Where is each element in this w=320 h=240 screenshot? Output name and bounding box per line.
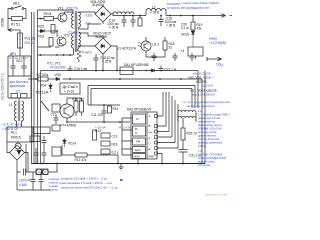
choke Dr box [60, 83, 80, 94]
svg-text:С11 100: С11 100 [91, 113, 103, 117]
lamp HL1 circle [15, 143, 21, 149]
svg-text:FM: FM [136, 140, 141, 144]
svg-text:× 630 В С6: × 630 В С6 [2, 127, 18, 131]
svg-text:VD4: VD4 [40, 84, 46, 88]
diode VD5 [56, 77, 60, 80]
svg-text:КТ817Б: КТ817Б [67, 7, 78, 11]
phototransistor U1.2 [141, 41, 151, 51]
opto arrows [138, 42, 142, 47]
svg-text:Hi/St: Hi/St [134, 155, 140, 159]
L3 illustration winding row2 [178, 116, 196, 118]
capacitor C15 on railA [68, 66, 73, 71]
svg-text:~9 В: ~9 В [84, 22, 91, 26]
bridge3 VD12-VD15 diamond [95, 38, 111, 54]
diode after DA1 [148, 69, 158, 72]
transformer T1 core [75, 11, 77, 52]
svg-text:0,1 м: 0,1 м [181, 26, 189, 30]
capacitor C1b [22, 56, 27, 76]
resistor R9 vertical [93, 130, 97, 140]
svg-text:R12 47к: R12 47к [75, 158, 87, 162]
small box DM [52, 147, 61, 156]
resistor R7 [38, 77, 48, 81]
svg-text:С21 1 м: С21 1 м [165, 68, 177, 72]
rail y105 [88, 104, 120, 106]
svg-text:КС212Ж: КС212Ж [36, 91, 48, 95]
feedback cap [42, 136, 47, 148]
svg-text:FU1 2А: FU1 2А [25, 37, 37, 41]
svg-text:намотаний на: намотаний на [198, 120, 216, 124]
rail B y78-79 [28, 78, 202, 80]
small comp column r16 [101, 149, 110, 154]
svg-text:× 35 В: × 35 В [166, 24, 175, 28]
wire out cap row [17, 169, 36, 176]
svg-text:× 25 В: × 25 В [102, 60, 111, 64]
switch KB1 lever [13, 6, 22, 9]
DA2 subbox RtCt [133, 126, 146, 136]
svg-text:C: C [149, 136, 151, 140]
switch KB1 terminals [11, 8, 13, 10]
small rect comp2 bottom box2 [21, 94, 28, 99]
resistor R19 [191, 22, 195, 30]
svg-text:СЕТЬ 220 В 50 Гц: СЕТЬ 220 В 50 Гц [0, 73, 4, 100]
svg-text:VD3: VD3 [38, 35, 44, 39]
bridge3 output wire [111, 46, 117, 71]
junction dots mid [66, 104, 121, 123]
svg-text:С2: С2 [16, 90, 20, 94]
svg-text:5 мкГн: 5 мкГн [82, 51, 92, 55]
bottom common rail [32, 163, 206, 165]
svg-text:VD2: VD2 [38, 25, 44, 29]
rail A y70.5 [41, 70, 199, 72]
main +U rail top [111, 14, 226, 16]
capacitor C21 [159, 66, 164, 71]
arrow +U output [222, 14, 226, 17]
vertical cap leg1 [31, 172, 36, 190]
choke L1 core [18, 101, 20, 121]
svg-text:R1 5,1: R1 5,1 [11, 23, 21, 27]
T1 primary winding lower [72, 33, 74, 48]
vertical bus right of IC [163, 92, 178, 148]
small comp column r13 [101, 141, 110, 146]
bridge VD8-VD11 diode mark [101, 12, 105, 16]
svg-text:R11 4,7к: R11 4,7к [119, 126, 131, 130]
svg-text:1-й: 1-й [198, 109, 202, 113]
wire T1 sec mid to bridge3 top [79, 33, 104, 38]
cap C10 [54, 115, 59, 124]
rail D y88.5 [91, 89, 192, 109]
decoupling cap2 [173, 53, 178, 61]
thermistor zigzag [77, 48, 81, 60]
svg-text:+12,5 В(9В): +12,5 В(9В) [209, 41, 226, 45]
decoupling cap row y57 [146, 53, 165, 61]
svg-text:× 30 В: × 30 В [109, 26, 118, 30]
svg-text:IV: IV [136, 117, 139, 121]
diode VD19 [191, 30, 195, 47]
svg-text:DA2 КР1033ЕУ5: DA2 КР1033ЕУ5 [127, 108, 151, 112]
decoupling cap3 [190, 53, 195, 61]
zener VD4 [49, 83, 53, 92]
svg-text:НОМІНАЛИ ДЕТАЛЕЙ: НОМІНАЛИ ДЕТАЛЕЙ [198, 156, 226, 160]
wires VT4 area [67, 98, 82, 122]
svg-text:С15 1 мк: С15 1 мк [74, 67, 88, 71]
choke L2 section1 bumps [113, 12, 134, 14]
svg-text:кольором: кольором [198, 164, 210, 167]
junction dots primary [40, 18, 71, 56]
resistor R26 [181, 128, 185, 140]
wire to T1 primary [72, 10, 74, 14]
svg-text:феритовому кільці: феритовому кільці [198, 123, 222, 127]
svg-text:U: U [149, 142, 151, 146]
resistor R11 vertical [80, 101, 84, 112]
wire U1.2 top [145, 37, 147, 57]
wire to fuse [17, 30, 20, 33]
svg-text:A: A [149, 114, 151, 118]
svg-text:VT4 КТ808: VT4 КТ808 [60, 124, 76, 128]
black text block right [188, 76, 217, 93]
svg-text:≈ 15 мА: ≈ 15 мА [95, 126, 106, 130]
capacitor C11 [102, 105, 107, 122]
svg-text:діаметром 0,5 мм,: діаметром 0,5 мм, [198, 116, 221, 120]
DA2 pin squares [155, 115, 158, 156]
wire rail y55 [38, 54, 74, 56]
DA2 subbox Start [133, 147, 146, 153]
svg-text:0,1 мк К73-17: 0,1 мк К73-17 [10, 56, 29, 60]
resistor R10 vertical [74, 101, 78, 112]
svg-text:B: B [149, 124, 151, 128]
svg-text:43к: 43к [197, 27, 203, 31]
svg-text:2200пФ: 2200пФ [19, 179, 31, 183]
transistor VT1 [58, 13, 67, 22]
svg-text:містить 15 витків: містить 15 витків [198, 137, 220, 141]
wire T1 sec mid to bridge1 bottom [79, 22, 104, 29]
wire DA2 bottom to rail [137, 159, 139, 164]
capacitor C18 [94, 54, 99, 71]
filter box C1 wires [8, 56, 31, 76]
optocoupler U1.1 circles [36, 169, 42, 175]
svg-text:VD5: VD5 [55, 73, 61, 77]
svg-text:Др 47мкГн: Др 47мкГн [63, 85, 78, 89]
diag stroke [41, 101, 49, 111]
wire y145 bottom mid [61, 145, 63, 155]
svg-text:КВ 1: КВ 1 [13, 2, 20, 6]
svg-text:VD7, VD18 КД522Б: VD7, VD18 КД522Б [190, 89, 217, 93]
svg-text:КТ3102БМ: КТ3102БМ [50, 66, 66, 70]
aux box right [188, 47, 203, 56]
svg-text:radioscheme.net: radioscheme.net [205, 193, 227, 197]
choke L2 section2 raised [146, 11, 166, 16]
electrolytic cap1 bottom left [34, 148, 39, 164]
capacitor C16 [122, 16, 127, 28]
L3 illustration legs [178, 112, 196, 128]
svg-text:ТА ІНШІ УТОЧНЕНІ: ТА ІНШІ УТОЧНЕНІ [198, 153, 222, 157]
svg-text:U1 АОТ127А: U1 АОТ127А [117, 47, 137, 51]
wire comp to right [48, 164, 57, 173]
svg-text:VD14: VD14 [68, 142, 76, 146]
svg-text:вказані синім: вказані синім [198, 160, 215, 164]
wire bridge bottom long [16, 160, 18, 190]
svg-text:КД226Б,: КД226Б, [196, 80, 208, 84]
svg-text:R13: R13 [95, 129, 101, 133]
choke L1 left winding [15, 101, 17, 121]
wire choke to HL1 [17, 121, 22, 127]
svg-text:+ 2×10: + 2×10 [64, 90, 74, 94]
feedback small box3 [52, 125, 60, 131]
small comp R14 [108, 106, 112, 113]
svg-text:частотные дроссели: частотные дроссели [186, 104, 215, 108]
bridge VD8-VD11 diamond [95, 6, 111, 22]
common rail arrow [207, 57, 222, 61]
wire mid y47 [38, 46, 60, 48]
svg-text:Общ.: Общ. [216, 63, 224, 67]
bridge VD1-VD4 diode mark [15, 151, 23, 155]
diode VD2 [38, 29, 50, 33]
svg-text:GND: GND [148, 155, 154, 159]
rail C y85.5 [88, 86, 195, 109]
svg-text:2000НМ, К20×12×6: 2000НМ, К20×12×6 [198, 127, 222, 131]
resistor R18 vertical [163, 41, 167, 50]
rail A left corner down [40, 71, 42, 164]
resistor R6 vertical [51, 25, 55, 34]
rail A right corner down [197, 71, 199, 109]
diode VD14 [63, 138, 67, 147]
svg-text:23 мм: 23 мм [68, 31, 77, 35]
svg-text:плівк./кераміка 1,5 мкФ × 250: плівк./кераміка 1,5 мкФ × 250 В — 2 ш [59, 181, 113, 185]
small rect comp bottom box2 [11, 94, 18, 99]
right frame vertical [204, 71, 206, 164]
svg-text:КЦ405А: КЦ405А [93, 3, 106, 7]
svg-text:L1: L1 [9, 103, 13, 107]
wire stage2 top [38, 31, 58, 37]
svg-text:СООБ: СООБ [0, 18, 4, 27]
wire box2 to choke [18, 98, 20, 101]
svg-text:VT1: VT1 [58, 7, 64, 11]
wire T1 primary bottom [73, 48, 75, 55]
svg-text:1-ї обмотки провід ПЭВ-2: 1-ї обмотки провід ПЭВ-2 [198, 113, 230, 117]
svg-text:або 1,5КЕ250СА: або 1,5КЕ250СА [192, 93, 215, 97]
svg-text:~18 В: ~18 В [84, 14, 92, 18]
svg-text:U1.2: U1.2 [153, 43, 160, 47]
resistor R8 vertical [49, 38, 53, 47]
svg-text:х 5кВ: х 5кВ [19, 183, 27, 187]
svg-text:друга обмотка: друга обмотка [198, 134, 216, 138]
svg-text:фiльтр: фiльтр [49, 188, 58, 192]
bottom rail dots [41, 163, 184, 165]
HL1 box [7, 127, 33, 142]
L3 illustration winding row1 [178, 110, 196, 112]
blue dot mark [120, 179, 123, 181]
svg-text:з ємностями 470мк СХЕМА: з ємностями 470мк СХЕМА [181, 1, 219, 5]
wire T1 sec to bridge3 [79, 45, 96, 46]
svg-text:VD19: VD19 [181, 33, 189, 37]
feedback box2 [30, 136, 40, 142]
mains plug arrow [8, 28, 17, 31]
wire bridge right [25, 153, 29, 173]
svg-text:проводу діаметром: проводу діаметром [198, 141, 222, 145]
svg-text:КЦ405Е: КЦ405Е [96, 35, 108, 39]
blue bottom-left right note [49, 177, 61, 192]
svg-text:0,2 к: 0,2 к [112, 151, 119, 155]
small comp column c13 [101, 133, 110, 138]
svg-text:E: E [149, 147, 151, 151]
wire y155 [62, 155, 118, 164]
bridge3 bottom wire [102, 54, 104, 71]
resistor R5 [44, 17, 54, 21]
svg-text:× 35 В: × 35 В [150, 11, 159, 15]
DA2 subbox FM [133, 138, 146, 145]
choke L1 right winding [22, 101, 24, 121]
fuse FU1 [18, 33, 23, 48]
wire switch loop [8, 9, 26, 19]
screen frame double vertical left [32, 12, 35, 164]
DA2 subbox HiStop [133, 154, 146, 159]
feedback box1 [33, 127, 50, 134]
rail junction dots [123, 15, 194, 17]
svg-text:R16: R16 [112, 143, 118, 147]
wire bridge left [7, 142, 10, 153]
wire VT1 collector [65, 12, 74, 14]
svg-text:91: 91 [169, 46, 173, 50]
ground symbol [119, 164, 124, 171]
vertical cap leg2 [39, 172, 44, 190]
svg-text:L2: L2 [152, 6, 156, 10]
wire neutral vertical [25, 144, 27, 172]
primary frame top [38, 10, 74, 164]
wire T1 sec to bridge1 [79, 12, 96, 14]
svg-text:БП ЗАРЯДНОГО ПР.: БП ЗАРЯДНОГО ПР. [181, 6, 210, 10]
bridge3 diode mark [101, 44, 105, 48]
T1 secondary winding upper [79, 12, 81, 27]
svg-text:HL1: HL1 [11, 131, 17, 135]
svg-text:Start: Start [135, 148, 141, 152]
vertical drop x193 [192, 16, 194, 23]
rail y122 [67, 121, 130, 123]
bottom-left ground rail [17, 189, 50, 191]
svg-text:R14: R14 [113, 107, 119, 111]
svg-text:R7 100к: R7 100к [37, 73, 49, 77]
electrolytic cap2 bottom left [42, 148, 47, 164]
wire to plug [7, 19, 9, 31]
DA2 subbox IV [133, 114, 146, 124]
node input box2 [8, 76, 31, 98]
capacitor C19 [159, 16, 164, 27]
bridge VD1-VD4 diamond [10, 145, 25, 160]
svg-text:STRONG: STRONG [167, 6, 181, 10]
blue winding paragraph [198, 109, 230, 167]
svg-text:кондены 220 мкФ × 250 В — 2 шт: кондены 220 мкФ × 250 В — 2 шт. [61, 177, 108, 181]
DA1 box [120, 67, 133, 75]
junction dots rails [35, 70, 182, 80]
svg-text:×3: ×3 [181, 49, 185, 53]
svg-text:С13: С13 [112, 135, 118, 139]
svg-text:R26 10: R26 10 [187, 132, 198, 136]
svg-text:резистор баластний R3 кОм 1 Вт: резистор баластний R3 кОм 1 Вт — 2 шт. [61, 186, 118, 190]
svg-text:вихід: вихід [209, 37, 217, 41]
rail B corner down [201, 79, 203, 164]
svg-text:ВП1-1: ВП1-1 [25, 41, 34, 45]
svg-text:R5 М: R5 М [44, 12, 52, 16]
comp double rect bottom [36, 169, 42, 175]
svg-text:КЛЛ16: КЛЛ16 [11, 136, 21, 140]
wire fuse to filter [19, 48, 21, 56]
resistor R12 [75, 153, 87, 157]
svg-text:С10: С10 [51, 113, 57, 117]
capacitor C17 [131, 16, 136, 28]
blue bottom paragraph [59, 177, 118, 190]
svg-text:R10 910: R10 910 [72, 97, 84, 101]
DA2 partition [146, 112, 148, 159]
IC DA2 outline [131, 112, 157, 159]
T1 secondary winding lower [79, 32, 81, 47]
capacitor C31 [179, 140, 188, 164]
svg-text:1,3: 1,3 [198, 149, 202, 153]
svg-text:адаптеров: адаптеров [10, 84, 26, 88]
svg-text:0,8 мм: 0,8 мм [198, 144, 206, 148]
DA2 right stub wires [158, 116, 179, 164]
small box left mid [52, 104, 60, 112]
T1 primary winding upper [72, 13, 74, 28]
svg-text:DA1 КР142ЕН8Б: DA1 КР142ЕН8Б [124, 63, 149, 67]
resistor R1 [12, 17, 23, 21]
DA2 left pin wires [122, 118, 133, 155]
power transistor VT4 [60, 104, 74, 118]
resistor R17 vertical [138, 18, 142, 26]
capacitor C1a [11, 56, 16, 76]
DA2 internal tiny text [134, 114, 155, 159]
svg-text:КД213А: КД213А [202, 84, 213, 88]
transistor VT2 [57, 37, 66, 46]
